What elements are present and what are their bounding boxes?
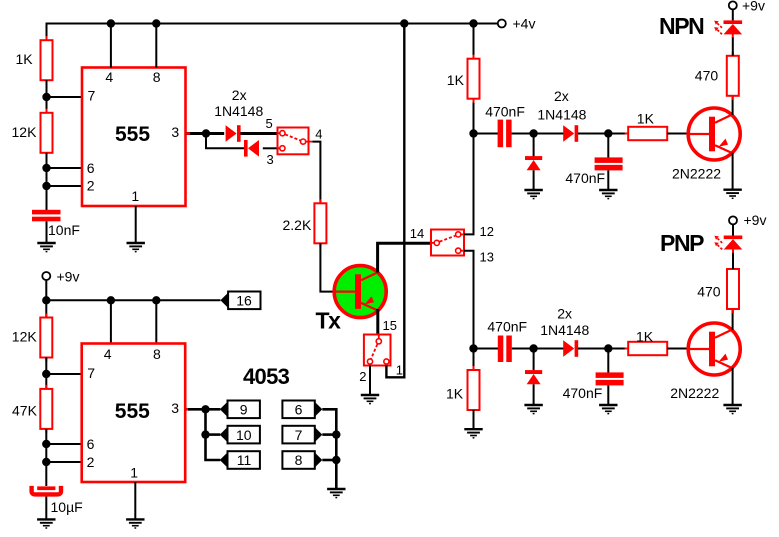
wire +4v rail to 1K upper: [473, 24, 475, 59]
svg-text:Tx: Tx: [316, 307, 342, 333]
transistor Q2 PNP 2N2222: [688, 323, 740, 375]
svg-text:6: 6: [295, 402, 303, 418]
svg-text:16: 16: [236, 293, 252, 309]
svg-text:1: 1: [130, 465, 138, 481]
resistor R 1K (upper right): [468, 55, 480, 103]
wire +9v rail to pin16: [46, 299, 220, 301]
node junction: [604, 344, 612, 352]
node junction NPN coupling: [469, 129, 477, 137]
node junction: [604, 129, 612, 137]
svg-text:10nF: 10nF: [48, 222, 80, 238]
wire Q1 collector up: [732, 96, 734, 115]
node junction: [332, 456, 340, 464]
svg-text:12: 12: [480, 224, 494, 239]
resistor R 1K (lower right): [468, 366, 480, 414]
node junction: [107, 19, 115, 27]
svg-text:470nF: 470nF: [563, 385, 603, 401]
wire C2 to node: [512, 133, 564, 135]
svg-text:470nF: 470nF: [485, 103, 525, 119]
svg-text:1N4148: 1N4148: [537, 107, 586, 123]
wire pin3 555a output: [186, 132, 225, 135]
svg-text:4: 4: [104, 346, 112, 362]
wire 470 to LED2: [732, 252, 734, 269]
wire switch pin4 to 2.2K: [312, 142, 320, 204]
wire node down to C5: [607, 349, 609, 374]
svg-text:7: 7: [295, 427, 303, 443]
wire LED1 to +9v: [732, 9, 734, 20]
svg-text:7: 7: [88, 88, 96, 104]
wire 1K to ground: [473, 410, 475, 429]
node +4v terminal circle: [498, 20, 506, 28]
resistor R 47K: [40, 385, 52, 433]
diode D5 1N4148 (shunt up, PNP row): [525, 370, 542, 384]
svg-text:1K: 1K: [637, 111, 655, 127]
ground: [524, 405, 542, 414]
svg-text:3: 3: [171, 124, 179, 140]
wire to C4: [474, 348, 499, 350]
wire LED2 to +9v: [732, 224, 734, 235]
wire C5 to ground: [607, 385, 609, 404]
transistor Q1 NPN 2N2222: [688, 108, 740, 160]
node junction: [529, 129, 537, 137]
node junction: [201, 405, 209, 413]
capacitor C 10nF: [32, 210, 61, 222]
svg-text:1K: 1K: [16, 51, 34, 67]
op-amp U1 555 timer box: [82, 68, 186, 207]
svg-text:12K: 12K: [12, 124, 38, 140]
svg-text:2x: 2x: [557, 306, 572, 322]
capacitor C 10uF (polarized): [37, 486, 55, 490]
svg-text:11: 11: [237, 452, 252, 468]
wire down to D5: [533, 349, 535, 372]
svg-text:2.2K: 2.2K: [283, 217, 312, 233]
resistor R 2.2K: [314, 199, 326, 247]
node junction: [332, 430, 340, 438]
wire pin1 555a to ground: [135, 206, 137, 243]
svg-text:555: 555: [115, 400, 150, 423]
wire D1 to switch pin5: [241, 132, 278, 135]
wire pin6 555b: [46, 443, 81, 445]
switch S3 (4053 section pins 14/12/13): [431, 230, 464, 256]
svg-text:+9v: +9v: [57, 268, 80, 284]
node junction: [42, 370, 50, 378]
node junction: [107, 296, 115, 304]
wire 2.2K to Tx base: [320, 243, 335, 291]
svg-text:2N2222: 2N2222: [672, 165, 721, 181]
svg-text:8: 8: [295, 452, 303, 468]
switch S2 (4053 section pins 15/2/1): [364, 335, 391, 366]
ground: [37, 519, 55, 528]
wire switch pin1 up to +4v rail: [386, 24, 404, 378]
node junction: [469, 19, 477, 27]
wire D3 to ground: [533, 170, 535, 189]
svg-text:3: 3: [267, 152, 274, 167]
svg-text:470nF: 470nF: [487, 319, 527, 335]
node junction: [42, 182, 50, 190]
svg-text:15: 15: [383, 318, 397, 333]
switch S1 (4053 section pins 5/3/4): [278, 128, 309, 155]
resistor R 12K (left): [41, 109, 53, 157]
node junction pin3: [202, 129, 210, 137]
transistor Tx (green): [334, 266, 386, 318]
node junction: [42, 440, 50, 448]
node junction PNP coupling: [469, 344, 477, 352]
wire Tx collector up to node 14: [378, 243, 431, 272]
node junction: [42, 296, 50, 304]
svg-text:1: 1: [396, 363, 403, 378]
wire Tx emitter down to switch pin15: [376, 309, 379, 335]
svg-text:1: 1: [131, 188, 139, 204]
terminal pin 6: [282, 401, 322, 419]
ground: [723, 190, 741, 199]
svg-text:5: 5: [266, 116, 273, 131]
svg-text:10µF: 10µF: [51, 499, 83, 515]
diode D6 1N4148 (series, PNP row): [563, 340, 578, 357]
wire cap to ground: [46, 221, 48, 242]
svg-text:+9v: +9v: [744, 212, 767, 228]
capacitor C 470nF (PNP series): [498, 336, 512, 363]
svg-text:+9v: +9v: [742, 0, 765, 14]
node junction: [42, 93, 50, 101]
svg-text:9: 9: [240, 402, 248, 418]
svg-text:1N4148: 1N4148: [214, 103, 263, 119]
capacitor C 470nF (NPN series): [498, 120, 512, 148]
ground: [599, 190, 617, 199]
wire pin3 555b output: [185, 408, 190, 411]
wire pin6 555a: [47, 167, 83, 169]
node +9v terminal (PNP): [729, 216, 737, 224]
svg-text:2: 2: [359, 369, 366, 384]
wire pin8 to rail: [322, 459, 336, 462]
node +9v terminal (NPN): [729, 1, 737, 9]
diode D3 1N4148 (shunt up, NPN row): [525, 156, 542, 170]
ground: [37, 243, 55, 252]
wire pin1 555b to ground: [134, 482, 136, 519]
wire Q2 emitter to ground: [732, 368, 734, 405]
resistor R 1K (NPN base): [625, 127, 671, 140]
svg-text:555: 555: [115, 123, 150, 146]
wire switch pin12 to node B: [464, 100, 474, 234]
op-amp U2 555 timer box: [82, 344, 186, 483]
svg-text:1K: 1K: [446, 386, 464, 402]
wire pin7 555b: [46, 373, 81, 375]
wire pin6 down right rail: [322, 409, 336, 488]
node junction: [152, 19, 160, 27]
wire switch pin2 to ground: [369, 366, 371, 395]
wire +9v down to rail: [45, 280, 47, 317]
svg-text:2N2222: 2N2222: [670, 385, 719, 401]
wire pin8 555b: [155, 300, 157, 343]
svg-text:470nF: 470nF: [565, 170, 605, 186]
terminal pin 16: [220, 292, 260, 310]
wire switch pin13 down to PNP row: [464, 251, 474, 371]
wire 1K to Q1 base: [667, 133, 689, 135]
wire C4 to node: [512, 348, 564, 350]
LED LED1 (NPN indicator): [714, 20, 742, 34]
svg-text:4: 4: [315, 126, 322, 141]
svg-text:470: 470: [695, 68, 719, 84]
resistor R 1K (PNP base): [625, 342, 671, 355]
node junction: [201, 430, 209, 438]
svg-text:10: 10: [236, 427, 252, 443]
node +9v terminal (bottom-left): [42, 272, 50, 280]
svg-text:1K: 1K: [447, 72, 465, 88]
node junction: [42, 164, 50, 172]
svg-text:6: 6: [87, 436, 95, 452]
wire to C2: [474, 133, 499, 135]
svg-text:6: 6: [87, 160, 95, 176]
ground: [361, 395, 379, 404]
wire branch down to pins 10 11: [206, 409, 221, 460]
wire D2 to switch pin3: [263, 147, 278, 149]
wire node down to C3: [607, 134, 609, 159]
node junction: [42, 458, 50, 466]
wire pin4 555a: [110, 24, 112, 68]
capacitor C 470nF (PNP shunt): [596, 372, 624, 385]
svg-text:NPN: NPN: [659, 13, 704, 39]
svg-text:2: 2: [87, 178, 95, 194]
ground: [126, 519, 144, 528]
wire D6 to 1K: [578, 348, 629, 350]
svg-text:7: 7: [87, 365, 95, 381]
resistor R 1K (top-left): [41, 36, 53, 84]
svg-text:12K: 12K: [12, 328, 38, 344]
ground: [127, 243, 145, 252]
wire Q2 collector up: [732, 309, 734, 330]
ground: [327, 489, 345, 498]
wire pin8 555a: [155, 24, 157, 68]
svg-text:14: 14: [410, 226, 424, 241]
terminal pin 9: [220, 401, 260, 419]
node junction: [400, 19, 408, 27]
wire pin2 555b: [46, 461, 81, 463]
svg-text:4: 4: [105, 69, 113, 85]
resistor R 470 (PNP): [727, 265, 739, 313]
resistor R 470 (NPN): [727, 52, 739, 100]
capacitor C 470nF (NPN shunt): [595, 157, 623, 170]
ground: [599, 405, 617, 414]
svg-text:3: 3: [171, 400, 179, 416]
ground: [524, 190, 542, 199]
diode D1 1N4148 (right): [226, 125, 241, 142]
LED LED2 (PNP indicator): [714, 236, 742, 250]
terminal pin 7: [282, 426, 322, 444]
wire pin2 555a: [47, 185, 83, 187]
diode D2 1N4148 (left): [244, 140, 259, 157]
svg-text:13: 13: [480, 250, 494, 265]
wire 10uF to ground: [45, 497, 47, 519]
svg-text:2: 2: [87, 454, 95, 470]
svg-text:2x: 2x: [232, 87, 247, 103]
wire 470 to LED1: [732, 37, 734, 56]
wire 1K to 12K: [46, 80, 48, 113]
svg-text:47K: 47K: [12, 403, 38, 419]
wire C3 to ground: [607, 170, 609, 189]
wire +4v top rail: [47, 24, 498, 41]
ground: [723, 405, 741, 414]
svg-text:8: 8: [153, 69, 161, 85]
wire D4 to 1K: [578, 133, 629, 135]
wire D5 to ground: [533, 384, 535, 404]
svg-text:PNP: PNP: [660, 230, 704, 256]
wire to pin10: [206, 433, 221, 436]
svg-text:1N4148: 1N4148: [540, 322, 589, 338]
svg-text:2x: 2x: [554, 88, 569, 104]
node junction: [529, 344, 537, 352]
svg-text:4053: 4053: [243, 364, 290, 389]
node junction: [152, 296, 160, 304]
wire 12K to 47K: [45, 358, 47, 390]
wire 12K down: [46, 153, 48, 210]
terminal pin 8: [282, 451, 322, 469]
wire pin7 555a: [47, 96, 83, 98]
wire 1K to Q2 base: [667, 348, 689, 350]
terminal pin 11: [220, 451, 260, 469]
wire branch down to D2: [206, 134, 244, 149]
svg-text:1K: 1K: [636, 329, 654, 345]
svg-text:470: 470: [697, 284, 721, 300]
wire pin4 555b: [110, 300, 112, 343]
wire Q1 emitter to ground: [732, 153, 734, 189]
diode D4 1N4148 (series, NPN row): [563, 125, 578, 142]
wire pin7 to rail: [322, 433, 336, 436]
ground: [464, 429, 482, 438]
resistor R 12K (bottom-left): [40, 314, 52, 362]
wire 47K down: [45, 429, 47, 486]
wire down to D3: [533, 134, 535, 158]
svg-text:+4v: +4v: [513, 16, 536, 32]
svg-text:8: 8: [153, 346, 161, 362]
terminal pin 10: [220, 426, 260, 444]
